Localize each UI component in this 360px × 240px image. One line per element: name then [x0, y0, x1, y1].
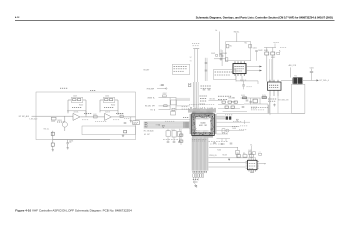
svg-text:C0241: C0241 — [105, 95, 109, 97]
svg-text:R0421: R0421 — [211, 53, 215, 55]
svg-text:C7: C7 — [259, 152, 261, 154]
svg-text:SPK-: SPK- — [145, 124, 149, 126]
svg-text:R0201: R0201 — [51, 121, 55, 123]
svg-text:C0445: C0445 — [248, 150, 252, 152]
svg-text:SW_B+: SW_B+ — [234, 31, 240, 33]
svg-text:R0242: R0242 — [111, 105, 115, 107]
svg-text:RESET: RESET — [231, 101, 236, 103]
svg-text:U0201B: U0201B — [105, 112, 110, 114]
svg-text:SH_DET: SH_DET — [143, 69, 149, 71]
svg-text:C9: C9 — [69, 142, 71, 144]
svg-text:Schematic Diagrams, Overlays,: Schematic Diagrams, Overlays, and Parts … — [196, 15, 333, 19]
svg-text:R1k: R1k — [250, 153, 253, 155]
svg-text:C0421: C0421 — [223, 53, 228, 55]
svg-text:R0222: R0222 — [79, 105, 83, 107]
svg-text:Y0400: Y0400 — [217, 150, 221, 152]
svg-text:PRE_EMP: PRE_EMP — [147, 89, 154, 91]
svg-text:M402: M402 — [250, 172, 254, 174]
svg-text:C0207: C0207 — [163, 93, 167, 95]
svg-text:Figure 4-10 VHF Controller AS: Figure 4-10 VHF Controller ASFIC/ON_OFF … — [15, 209, 132, 213]
svg-text:UNSW_B+: UNSW_B+ — [147, 97, 155, 99]
svg-text:BW_SEL: BW_SEL — [210, 99, 216, 101]
svg-text:RX_IN: RX_IN — [223, 155, 227, 157]
svg-text:C0231: C0231 — [93, 114, 97, 116]
svg-text:C0422: C0422 — [258, 50, 263, 52]
svg-text:C0236: C0236 — [69, 141, 73, 143]
svg-text:R0456: R0456 — [262, 95, 266, 97]
svg-text:R0246: R0246 — [120, 114, 124, 116]
svg-text:C0420: C0420 — [253, 48, 257, 50]
svg-text:R11: R11 — [230, 46, 233, 48]
svg-text:HS_DET: HS_DET — [144, 134, 150, 136]
svg-text:R0462: R0462 — [271, 57, 275, 59]
svg-text:B+: B+ — [251, 145, 253, 147]
svg-text:EXT_SWB+_SW: EXT_SWB+_SW — [278, 99, 289, 101]
svg-text:R12: R12 — [245, 43, 248, 45]
svg-text:R0233: R0233 — [58, 120, 62, 122]
svg-text:C0213: C0213 — [171, 110, 175, 112]
svg-text:R1k: R1k — [243, 153, 246, 155]
svg-text:B+: B+ — [216, 30, 218, 32]
svg-text:R0461: R0461 — [264, 50, 268, 52]
svg-text:4-12: 4-12 — [15, 16, 20, 19]
svg-text:5C: 5C — [190, 57, 192, 59]
svg-text:R1k: R1k — [237, 153, 240, 155]
svg-text:R0455: R0455 — [241, 95, 245, 97]
svg-text:C0221: C0221 — [73, 95, 77, 97]
svg-text:VOL D+: VOL D+ — [44, 128, 50, 130]
svg-text:FL2: FL2 — [295, 75, 298, 77]
svg-text:INT_MIC_SPY: INT_MIC_SPY — [145, 106, 155, 108]
svg-text:5V: 5V — [190, 61, 192, 63]
svg-text:C: C — [264, 164, 265, 166]
svg-text:C0403: C0403 — [232, 128, 236, 130]
svg-text:SPK+: SPK+ — [145, 122, 149, 124]
svg-text:U0400: U0400 — [201, 123, 206, 125]
svg-text:PROG_CE: PROG_CE — [210, 155, 217, 157]
